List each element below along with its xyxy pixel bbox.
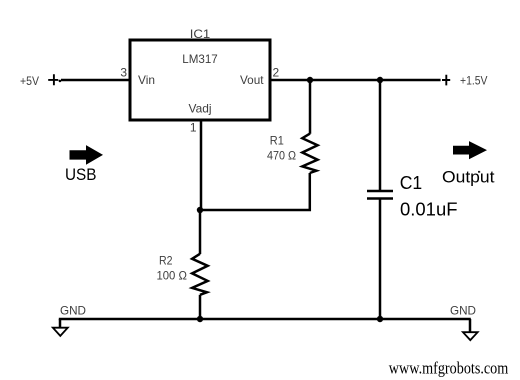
svg-text:0.01uF: 0.01uF [400,198,458,219]
svg-text:GND: GND [60,303,86,317]
svg-text:IC1: IC1 [190,27,211,41]
svg-text:Vadj: Vadj [189,101,212,115]
svg-text:2: 2 [273,66,280,80]
svg-text:LM317: LM317 [182,52,218,66]
svg-text:R2: R2 [159,253,173,267]
svg-text:Vout: Vout [240,73,264,87]
svg-text:+5V: +5V [20,74,39,88]
svg-text:www.mfgrobots.com: www.mfgrobots.com [389,358,509,377]
svg-text:GND: GND [450,304,476,318]
svg-text:USB: USB [65,166,97,184]
svg-text:Output: Output [442,168,495,187]
svg-text:Vin: Vin [138,73,155,87]
svg-text:470 Ω: 470 Ω [267,148,296,162]
svg-text:100 Ω: 100 Ω [156,269,187,283]
svg-text:3: 3 [120,66,127,80]
svg-text:+1.5V: +1.5V [460,74,488,88]
svg-text:R1: R1 [270,133,284,147]
svg-text:C1: C1 [400,173,423,193]
svg-text:1: 1 [190,121,197,135]
